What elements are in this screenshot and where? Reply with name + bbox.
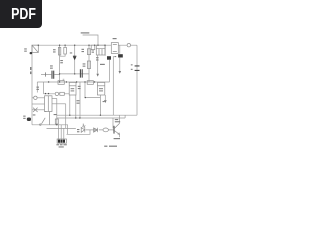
arrow tick below C5 bbox=[119, 71, 122, 74]
resistor R3 parallel bbox=[64, 47, 67, 54]
LED D2 bbox=[81, 125, 85, 133]
wire diode chain bbox=[86, 129, 114, 131]
wire U4 bottom drop bbox=[99, 95, 101, 115]
connector J1 terminal 1 bbox=[58, 140, 60, 143]
IC U2 tall box bbox=[45, 96, 53, 112]
resistor R10 on vertical bbox=[55, 119, 58, 124]
wire lower right return bus bbox=[57, 114, 137, 116]
label X1 bbox=[92, 49, 94, 50]
wire selector stub 3 bbox=[32, 109, 45, 111]
wire U4 feedback lead bbox=[85, 82, 100, 97]
wire right rail bbox=[136, 45, 138, 115]
wire vertical U3 pins down bbox=[70, 95, 76, 118]
wire secondary bottom bus bbox=[47, 127, 76, 129]
node on mid bus bbox=[48, 81, 49, 82]
node on top bus bbox=[38, 45, 39, 46]
blob at R1 corner bbox=[30, 52, 33, 54]
wire U2 right pin 1 bbox=[52, 98, 57, 100]
label lamp X bbox=[33, 114, 36, 115]
label diode row bbox=[77, 100, 80, 101]
wire drop to U2 top line bbox=[43, 82, 45, 94]
zener D4 below U4 bbox=[104, 100, 107, 103]
label D1 bbox=[70, 52, 72, 53]
resistor R7 series box on bus bbox=[58, 81, 64, 85]
resistor R4 upper bbox=[87, 49, 90, 55]
label LED bbox=[77, 129, 79, 130]
switch S1 lever bbox=[42, 118, 46, 124]
wire selector stub 2 bbox=[32, 103, 45, 105]
resistor R5 bbox=[87, 61, 90, 69]
lamp X symbol bbox=[33, 108, 38, 112]
wire vertical C5 branch bbox=[119, 45, 121, 71]
resistor R9b box on lower line bbox=[60, 92, 65, 95]
node on ground bus bbox=[56, 124, 57, 125]
wire LED stub bbox=[82, 124, 84, 128]
arrow tick below relay pin bbox=[96, 74, 99, 77]
wire mid bus bbox=[37, 81, 109, 83]
wire vertical loop at node B bbox=[60, 45, 66, 56]
capacitor C5 polarized blob bbox=[118, 54, 123, 57]
ground bus bbox=[32, 125, 90, 135]
wire vertical regulator output blob lead bbox=[112, 56, 114, 115]
wire emitter lead bbox=[119, 134, 121, 137]
wire connector leads bbox=[59, 125, 64, 139]
wire collector lead bbox=[119, 115, 121, 123]
wire vertical R2 drop bbox=[59, 45, 61, 82]
node on feedback line bbox=[85, 97, 86, 98]
IC U3 box bbox=[69, 82, 76, 95]
wire raised antenna segment bbox=[83, 35, 98, 45]
label rail R bbox=[30, 67, 31, 70]
label C1 bbox=[50, 65, 53, 66]
connector J1 terminal 3 bbox=[63, 140, 65, 143]
wire selector stub 1 bbox=[32, 97, 45, 99]
label pot 40 bbox=[100, 64, 105, 65]
node on return bus bbox=[69, 115, 70, 116]
wire vertical node F drop bbox=[79, 82, 81, 118]
wire vertical node C drop bbox=[56, 99, 58, 125]
wire vertical below C4 blob bbox=[105, 45, 109, 82]
tiny illegible labels drawn as specks bbox=[23, 32, 132, 147]
label mid row bbox=[78, 86, 81, 87]
resistor R8 series box on bus bbox=[87, 81, 93, 85]
IC U4 box bbox=[97, 82, 104, 95]
relay K1 box bbox=[96, 45, 105, 55]
transistor Q1 bbox=[113, 126, 115, 134]
label inside U3 bbox=[71, 88, 75, 89]
capacitor C4 polarized blob bbox=[107, 56, 111, 60]
wire vertical R4 drop bbox=[88, 45, 90, 82]
junction nodes bbox=[38, 45, 106, 126]
connector J1 outline bbox=[57, 139, 66, 143]
wire base feed bus bbox=[57, 115, 125, 130]
label R1 bbox=[24, 48, 27, 49]
label emitter 12V bbox=[114, 138, 120, 139]
capacitor C3 right rail plates bbox=[135, 66, 140, 71]
diode D1 filled bbox=[73, 57, 77, 61]
wire vertical node D drop bbox=[65, 104, 67, 129]
wire left rail bbox=[31, 45, 33, 125]
wire zener stub bbox=[104, 95, 106, 100]
lamp L1 circle bbox=[34, 96, 37, 99]
antenna coupling box below bus bbox=[91, 45, 95, 50]
node on return bus right bbox=[100, 115, 101, 116]
lamp L3 ellipse bbox=[103, 128, 108, 132]
node on base feed line bbox=[75, 117, 76, 118]
regulator U1 box bbox=[111, 43, 118, 54]
connector J1 terminal 2 bbox=[60, 140, 62, 143]
label U1 bbox=[113, 38, 117, 39]
wire vertical relay pin bbox=[97, 55, 99, 74]
label C4 bbox=[114, 56, 116, 57]
label antenna bbox=[81, 32, 90, 33]
capacitor C1 plates bbox=[45, 72, 47, 76]
label left stub bbox=[36, 87, 39, 88]
resistor R2 bbox=[58, 47, 60, 55]
wire vertical diode D1 drop bbox=[74, 45, 76, 74]
fuse F1 circle bbox=[127, 44, 130, 47]
label R4 bbox=[82, 49, 85, 50]
label zener bbox=[103, 101, 105, 102]
label Q1 bbox=[115, 119, 118, 120]
pot P1 circle on lower line bbox=[55, 92, 58, 95]
label R10 bbox=[54, 114, 57, 115]
wire stub from mid bus down left bbox=[36, 82, 38, 93]
label C2 bbox=[83, 63, 86, 64]
wire U2 pin out 1 bbox=[44, 93, 70, 95]
resistor R1 top-left box bbox=[32, 45, 38, 52]
node on cap line bbox=[59, 73, 60, 74]
label varistor bbox=[23, 116, 25, 117]
label inside U4 bbox=[99, 88, 103, 89]
node on U2 top line bbox=[45, 93, 46, 94]
PDF badge bbox=[0, 0, 42, 28]
label R2 bbox=[53, 49, 56, 50]
wire cap line bbox=[41, 73, 89, 76]
label K1 below bbox=[96, 57, 99, 58]
resistor R6 ticks above mid bus bbox=[63, 79, 65, 80]
wire top bus left section bbox=[32, 44, 112, 46]
label R5 bbox=[60, 60, 63, 61]
wire U2 pin out 2 bbox=[52, 103, 66, 105]
label bottom right note bbox=[104, 146, 107, 147]
diode D3 bbox=[94, 128, 98, 132]
capacitor C2 plates bbox=[80, 69, 82, 77]
varistor blob on left rail bbox=[27, 118, 31, 122]
label connector bbox=[56, 144, 59, 145]
wire top bus right section bbox=[118, 44, 137, 46]
label C3 plus bbox=[131, 64, 133, 65]
